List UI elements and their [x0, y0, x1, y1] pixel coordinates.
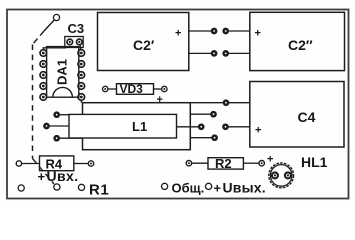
svg-text:Общ.: Общ.	[172, 181, 205, 196]
LED HL1 inner circle	[270, 165, 292, 187]
dashed outline vertical	[32, 45, 34, 159]
dashed outline diagonal over R4	[40, 167, 44, 171]
wire pad G to C2'' (row 1)	[229, 30, 250, 32]
wire L1-a	[60, 114, 69, 116]
svg-text:R1: R1	[89, 182, 109, 199]
pad Uvyh	[206, 183, 212, 189]
svg-text:L1: L1	[132, 119, 147, 134]
svg-text:R2: R2	[215, 156, 232, 171]
svg-text:+: +	[255, 28, 261, 40]
resistor R2 right pad	[259, 161, 264, 166]
wire L1-c	[60, 137, 83, 139]
resistor R4 left pad	[16, 161, 21, 166]
wire VD3 right	[154, 88, 162, 90]
pad L1-a (left)	[53, 111, 60, 118]
pad G	[222, 28, 229, 35]
IC DA1 notch	[53, 87, 73, 97]
capacitor C2'' body	[250, 12, 345, 70]
DA1 pads left column	[40, 50, 47, 101]
DA1 pads right column	[78, 50, 85, 101]
wire R2 left	[192, 162, 208, 164]
pad H	[211, 50, 218, 57]
pad I	[222, 50, 229, 57]
inductor L1 inner body	[69, 114, 177, 138]
wire L1 inner to pad C	[177, 126, 199, 128]
resistor R2 left pad	[186, 161, 191, 166]
wire VD3 left	[108, 88, 117, 90]
wire C3-1 to DA1 pin1	[43, 48, 66, 50]
svg-text:C4: C4	[298, 109, 316, 125]
wire R4 right	[74, 163, 88, 165]
svg-text:+: +	[157, 94, 163, 106]
inductor L1 outer rect (winding)	[83, 103, 191, 150]
wire C2' to pad (row 2)	[189, 52, 211, 54]
svg-text:HL1: HL1	[301, 154, 328, 170]
board outline	[7, 10, 349, 199]
resistor R4 body	[40, 156, 74, 171]
pad C	[198, 123, 205, 130]
svg-text:DA1: DA1	[54, 59, 69, 85]
wire R4 left	[22, 163, 40, 165]
pad B	[210, 111, 217, 118]
pad HL1-1	[272, 172, 278, 178]
hole (bottom left 1)	[18, 185, 24, 191]
dashed outline diagonal (bottom)	[33, 159, 55, 185]
capacitor C2' body	[98, 13, 189, 71]
diode VD3 right pad	[162, 86, 167, 91]
wire L1 top to pad A to C4	[190, 102, 250, 104]
svg-text:+: +	[214, 181, 222, 196]
svg-text:Uвых.: Uвых.	[223, 180, 266, 196]
diode VD3 body	[117, 84, 154, 95]
pad D	[222, 123, 229, 130]
wire L1 right to pad E	[190, 137, 211, 139]
diode VD3 left pad	[103, 86, 108, 91]
wire (diagonal from top pad)	[44, 20, 54, 31]
pad L1-b (left)	[43, 123, 50, 130]
pad C3-2	[77, 39, 83, 45]
wire L1 right to pad B	[190, 113, 210, 115]
wire L1-b	[49, 125, 69, 127]
dashed outline diagonal (top)	[33, 31, 45, 45]
wire pad D to C4	[229, 126, 250, 128]
svg-text:+: +	[175, 28, 181, 40]
pad A	[223, 99, 230, 106]
pad Obsh	[162, 183, 168, 189]
capacitor C3 body	[65, 37, 83, 48]
pad F	[211, 28, 218, 35]
wire DA1 pin6 to L1 coil	[80, 100, 82, 103]
wire R2 right	[243, 162, 259, 164]
wire C2' to pad (row 1)	[189, 30, 211, 32]
svg-text:C2″: C2″	[288, 37, 313, 53]
resistor R2 body	[208, 158, 243, 169]
svg-text:+: +	[255, 125, 261, 137]
pad HL1-2	[285, 172, 291, 178]
wire pad I to C2'' (row 2)	[229, 52, 250, 54]
LED HL1 outer circle	[269, 163, 294, 188]
svg-text:+: +	[267, 154, 273, 166]
wire C3-2 to DA1 pin10	[80, 45, 81, 50]
hole (bottom left 2)	[78, 184, 84, 190]
capacitor C4 body	[250, 82, 344, 148]
pad (dashed outline, bottom)	[54, 184, 60, 190]
svg-text:C2′: C2′	[133, 37, 155, 53]
resistor R4 right pad	[88, 161, 93, 166]
IC DA1 body	[47, 47, 79, 98]
pad E	[211, 134, 218, 141]
svg-text:Uвх.: Uвх.	[47, 168, 79, 184]
pad C3-1	[67, 39, 73, 45]
svg-text:C3: C3	[68, 21, 85, 36]
svg-text:VD3: VD3	[120, 82, 144, 96]
pad (dashed outline, top)	[53, 14, 59, 20]
svg-text:+: +	[38, 169, 46, 184]
pad L1-c (left)	[53, 135, 60, 142]
